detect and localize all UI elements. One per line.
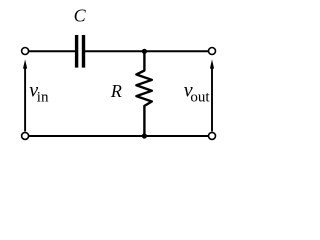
wire top-left segment	[29, 50, 75, 52]
terminal bottom-left	[22, 132, 29, 139]
wire top-right segment	[85, 50, 208, 52]
v_in arrowhead	[23, 59, 27, 68]
terminal top-left	[22, 48, 29, 55]
junction node bottom	[142, 133, 147, 138]
v_out arrow shaft	[211, 67, 213, 131]
resistor R1 zigzag	[136, 51, 151, 136]
svg-text:in: in	[37, 90, 49, 106]
terminal bottom-right	[209, 132, 216, 139]
junction node top	[142, 49, 147, 54]
wire bottom segment	[29, 135, 208, 137]
svg-text:C: C	[74, 6, 87, 26]
svg-text:out: out	[190, 90, 210, 106]
terminal top-right	[209, 48, 216, 55]
svg-text:R: R	[110, 81, 122, 101]
capacitor C1 plates	[75, 35, 85, 68]
v_in arrow shaft	[24, 67, 26, 131]
v_out arrowhead	[210, 59, 214, 68]
